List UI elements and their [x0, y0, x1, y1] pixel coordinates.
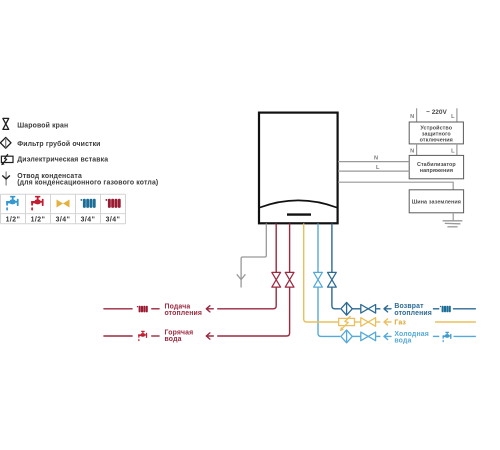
mid N wire — [416, 144, 418, 156]
mid L wire — [456, 144, 458, 156]
heating return right radiator icon — [440, 306, 451, 313]
svg-text:3/4": 3/4" — [56, 216, 71, 223]
mains N wire — [416, 108, 418, 122]
cold water arrow — [384, 333, 391, 339]
boiler front curve — [260, 200, 337, 207]
svg-text:напряжения: напряжения — [420, 168, 453, 174]
svg-text:N: N — [410, 114, 414, 120]
cold water line seg — [353, 335, 361, 337]
heating supply pipe (upper seg) — [275, 223, 277, 272]
hot water pipe (upper seg) — [289, 223, 291, 272]
hot water valve — [285, 272, 294, 287]
heating return pipe (upper seg) — [331, 223, 333, 272]
cold water right dash — [433, 335, 439, 337]
svg-text:Шина заземления: Шина заземления — [412, 200, 461, 206]
svg-text:(для конденсационного газового: (для конденсационного газового котла) — [17, 180, 158, 187]
svg-text:вода: вода — [165, 336, 182, 343]
gas right line — [435, 321, 476, 323]
heating return arrow — [384, 306, 391, 312]
cold water line seg2 — [376, 335, 380, 337]
svg-text:1/2": 1/2" — [6, 216, 21, 223]
RCD box — [409, 122, 463, 144]
dielectric legend diagonal — [3, 154, 8, 164]
gas pipe — [304, 223, 338, 322]
condensate arrow — [237, 274, 246, 279]
dielectric legend symbol — [1, 156, 13, 162]
svg-text:3/4": 3/4" — [81, 216, 96, 223]
svg-text:Диэлектрическая вставка: Диэлектрическая вставка — [17, 157, 108, 164]
heating supply stub line 2 — [151, 308, 159, 310]
table red radiator icon — [105, 199, 120, 208]
svg-text:Шаровой кран: Шаровой кран — [17, 121, 68, 129]
svg-text:отключения: отключения — [420, 138, 453, 144]
cold water right tap icon — [442, 332, 451, 343]
boiler display slot — [287, 213, 311, 215]
svg-text:3/4": 3/4" — [106, 216, 121, 223]
earth wire — [452, 213, 454, 221]
svg-text:N: N — [410, 148, 414, 154]
gas arrow — [384, 319, 391, 325]
heating return bowtie valve — [361, 305, 376, 314]
svg-text:Газ: Газ — [394, 320, 406, 327]
ground wire — [338, 182, 453, 190]
svg-text:L: L — [376, 165, 380, 171]
cold water pipe (upper seg) — [317, 223, 319, 272]
filter legend symbol — [0, 137, 11, 148]
svg-text:отопления: отопления — [394, 310, 432, 317]
heating return right dash — [433, 308, 439, 310]
heating supply stub line — [103, 308, 132, 310]
table blue tap icon — [6, 196, 18, 211]
cold water filter — [341, 330, 352, 343]
gas line seg2 — [376, 321, 380, 323]
ball valve legend symbol — [3, 118, 9, 129]
boiler N wire — [338, 161, 409, 163]
heating supply radiator icon — [137, 306, 148, 313]
hot water tap icon — [138, 331, 147, 342]
gas bowtie valve — [361, 318, 376, 327]
hot water pipe (lower seg to left) — [217, 287, 289, 336]
heating return line seg2 — [376, 308, 380, 310]
svg-text:защитного: защитного — [422, 131, 452, 137]
svg-text:Устройство: Устройство — [420, 124, 452, 131]
hot water stub line — [103, 335, 132, 337]
heating supply arrow — [206, 306, 213, 312]
mains L wire — [456, 108, 458, 122]
gas dielectric insert — [339, 316, 355, 331]
cold water right line — [454, 335, 476, 337]
svg-text:L: L — [451, 114, 455, 120]
hot water arrow — [206, 333, 213, 339]
ground bus box — [409, 190, 463, 213]
heating return pipe (lower seg to right) — [332, 287, 340, 309]
cold water pipe (lower seg to right) — [318, 287, 340, 336]
svg-text:1/2": 1/2" — [31, 216, 46, 223]
earth symbol — [443, 221, 463, 227]
boiler body — [259, 113, 338, 224]
heating return valve — [328, 272, 337, 287]
heating return filter — [341, 302, 352, 315]
svg-text:L: L — [451, 148, 455, 154]
boiler L wire — [338, 170, 409, 172]
gas line seg — [354, 321, 361, 323]
heating return line seg — [353, 308, 361, 310]
svg-text:~ 220V: ~ 220V — [426, 109, 447, 116]
svg-text:Стабилизатор: Стабилизатор — [417, 161, 456, 168]
heating return right line — [453, 308, 476, 310]
hot water stub line 2 — [151, 335, 159, 337]
svg-text:вода: вода — [394, 337, 411, 344]
table grid — [1, 194, 126, 224]
condensate legend symbol — [5, 172, 7, 186]
svg-text:Фильтр грубой очистки: Фильтр грубой очистки — [17, 140, 100, 148]
table red tap icon — [31, 196, 43, 211]
cold water bowtie valve — [361, 332, 376, 341]
stabilizer box — [409, 155, 463, 178]
condensate pipe — [241, 223, 266, 287]
table blue radiator icon — [80, 199, 95, 208]
svg-text:отопления: отопления — [165, 310, 203, 317]
table yellow valve icon — [57, 200, 70, 208]
heating supply valve — [272, 272, 281, 287]
svg-text:N: N — [374, 156, 378, 162]
heating supply pipe (lower seg to left) — [217, 287, 276, 309]
cold water valve — [314, 272, 323, 287]
